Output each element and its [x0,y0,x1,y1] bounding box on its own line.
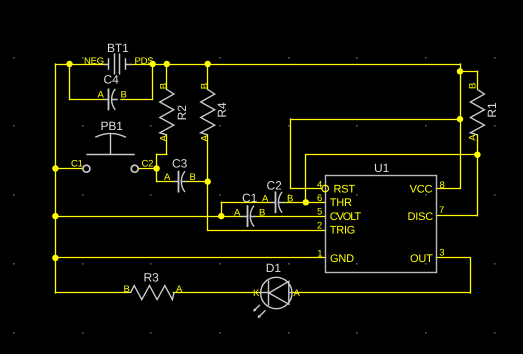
capacitor C3 [173,171,187,193]
pushbutton PB1 [83,133,138,172]
wire R4 top lead [207,64,209,89]
svg-text:U1: U1 [374,161,390,175]
resistor R3 [130,286,174,300]
svg-text:R2: R2 [175,105,189,121]
wire to C3 A [157,181,174,183]
wire pin 7 DISC stub [436,215,477,217]
svg-text:R4: R4 [215,102,229,118]
svg-text:7: 7 [439,205,444,216]
svg-text:A: A [98,90,105,101]
wire D1 anode to corner [292,292,470,294]
svg-text:5: 5 [317,207,322,218]
wire R2 jog down to junction [156,154,158,168]
svg-text:A: A [176,284,183,295]
svg-text:DISC: DISC [408,211,434,223]
wire CVOLT net left of C1 [55,216,241,218]
svg-text:C2: C2 [142,159,154,170]
junction THR riser [303,199,309,205]
svg-text:A: A [234,208,241,219]
svg-text:A: A [159,134,170,141]
wire R1 bottom lead down to DISC level [477,135,479,216]
junction C3 B on R4 line [205,178,211,184]
wire R1 top lead [477,71,479,89]
wire THR to R1 bottom / DISC [306,154,478,156]
wire TRIG net to pin 2 [208,230,326,232]
wire PB1 terminal C2 to junction [138,168,156,170]
svg-text:CVOLT: CVOLT [330,211,362,223]
wire THR junction riser [305,155,307,203]
junction R2 top [164,61,170,67]
capacitor C4 [104,89,118,111]
junction R1 bottom / THR / DISC [474,152,480,158]
wire to pin 4 RST bubble [291,188,322,190]
junction NEG / C4 loop [66,61,72,67]
wire to C2 A [221,202,270,204]
wire to C4 A [70,99,104,101]
svg-text:B: B [124,284,130,295]
svg-text:PB1: PB1 [101,119,124,133]
svg-text:RST: RST [334,184,356,196]
junction rail GND row [52,255,58,261]
wire C2 B to pin 6 THR [284,202,325,204]
junction rail PB1 row [52,165,58,171]
svg-text:C3: C3 [172,157,188,171]
svg-text:BT1: BT1 [107,41,129,55]
svg-text:A: A [164,172,171,183]
svg-text:B: B [259,208,265,219]
junction RST on VCC drop [457,116,463,122]
junction rail CVOLT row [52,213,58,219]
svg-text:C1: C1 [242,191,258,205]
wire OUT return vertical [470,258,472,293]
wire RST horizontal to VCC rail [291,119,460,121]
wire top rail right (PDS to top-right corner) [131,64,460,66]
wire rail to PB1 terminal C1 [55,168,82,170]
battery BT1 [104,54,131,75]
junction R1 branch [457,68,463,74]
wire R3 to D1 cathode [173,292,260,294]
svg-text:B: B [190,172,196,183]
wire R2 bottom lead [166,135,168,154]
svg-text:A: A [200,134,211,141]
svg-text:B: B [159,83,170,89]
svg-text:A: A [294,288,301,299]
junction PDS / C4 loop [150,61,156,67]
wire R2 top lead [166,64,168,89]
svg-text:VCC: VCC [410,184,433,196]
svg-text:8: 8 [440,180,445,191]
svg-text:GND: GND [330,253,354,265]
svg-text:6: 6 [317,193,322,204]
capacitor C1 [242,205,257,227]
svg-text:K: K [253,288,260,299]
junction PB1 C2 / R2 / C3 [153,165,159,171]
resistor R2 [160,89,174,134]
wire left ground rail [55,64,57,293]
svg-text:D1: D1 [266,261,282,275]
wire GND net (pin 1) [55,257,325,259]
wire R4 bottom lead down to TRIG corner [207,135,209,230]
pin 4 RST bubble [322,185,329,192]
svg-text:1: 1 [317,249,322,260]
svg-text:3: 3 [439,247,444,258]
wire pin 3 OUT stub [436,257,470,259]
svg-text:C4: C4 [104,73,120,87]
wire C1 B to pin 5 CVOLT [257,216,326,218]
capacitor C2 [270,191,284,213]
svg-text:R1: R1 [485,102,499,118]
junction R4 top [205,61,211,67]
wire junction riser C1 to C2 level [221,202,223,216]
LED D1 [253,277,292,318]
svg-text:C1: C1 [71,159,83,170]
svg-text:TRIG: TRIG [330,225,355,237]
svg-text:R3: R3 [144,271,160,285]
wire top rail left (NEG side) [55,64,104,66]
svg-text:2: 2 [317,221,322,232]
svg-text:B: B [287,194,293,205]
wire C4 loop left [69,64,71,99]
wire R1 top branch [460,71,477,73]
svg-text:A: A [468,134,479,141]
wire bottom row to R3 [55,292,130,294]
resistor R4 [201,89,215,134]
svg-text:B: B [468,83,479,89]
wire C3 B to R4 line [188,181,208,183]
wire C4 B to loop right [121,99,153,101]
op-amp U1 (555 timer box) [326,176,437,273]
junction C1 A riser [218,213,224,219]
wire junction down to C3 level [156,169,158,182]
svg-text:B: B [200,83,211,89]
svg-text:THR: THR [330,197,352,209]
svg-text:PDS: PDS [135,56,154,67]
svg-text:A: A [262,194,269,205]
wire pin 8 VCC stub [436,188,460,190]
resistor R1 [470,89,484,134]
svg-text:B: B [121,90,127,101]
wire VCC drop right edge [460,64,462,189]
svg-text:4: 4 [317,179,322,190]
wire R2 bottom jog [157,154,167,156]
svg-text:NEG: NEG [84,56,104,67]
wire RST vertical [290,119,292,188]
svg-text:C2: C2 [267,179,283,193]
wire C4 loop right riser [152,64,154,99]
svg-text:OUT: OUT [410,253,433,265]
